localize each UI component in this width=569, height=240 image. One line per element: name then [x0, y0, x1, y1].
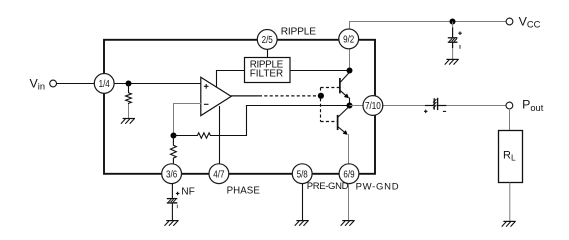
wire coupling cap to Pout terminal: [446, 105, 506, 107]
node input junction: [126, 81, 132, 87]
wire ripple filter to Q1 collector node: [290, 70, 350, 72]
wire NF cap to ground: [171, 203, 173, 220]
wire Pout to RL: [509, 109, 511, 131]
pin 6/9: [339, 164, 359, 184]
wire ripple filter to op-amp top: [217, 71, 245, 88]
wire dashed to Q1 base: [321, 87, 340, 89]
wire Vcc cap lower stub: [452, 42, 454, 48]
wire pin 5/8 to ground: [302, 184, 304, 220]
resistor RL load: [499, 131, 523, 183]
wire op-amp output: [231, 95, 259, 97]
wire pin 9/2 down to collector node: [349, 48, 351, 71]
pin 1/4: [94, 74, 114, 94]
node collector junction: [347, 68, 353, 74]
ground below RL: [502, 221, 516, 226]
pin 4/7: [209, 164, 229, 184]
node output junction: [347, 103, 353, 109]
transistor Q2 lower output: [338, 106, 350, 135]
svg-text:7/10: 7/10: [365, 101, 381, 112]
wire dashed to Q2 base: [321, 121, 338, 123]
ripple filter block: [245, 58, 291, 83]
svg-text:PHASE: PHASE: [227, 186, 261, 197]
svg-text:5/8: 5/8: [297, 169, 308, 180]
svg-text:RIPPLE: RIPPLE: [281, 27, 317, 38]
wire pin 4/7 to op-amp phase input: [219, 106, 221, 165]
IC outline U1: [104, 40, 375, 174]
wire input resistor to ground: [128, 104, 130, 118]
terminal Vin: [50, 80, 57, 87]
svg-text:9/2: 9/2: [343, 35, 354, 46]
svg-text:1/4: 1/4: [99, 79, 110, 90]
svg-text:6/9: 6/9: [343, 169, 354, 180]
wire Vcc cap upper stub: [452, 22, 454, 28]
wire Q2 emitter to pin 6/9: [348, 134, 350, 165]
wire Vcc rail from pin 9/2 up and right to Vcc terminal: [350, 22, 507, 30]
wire Vin to pin 1/4: [56, 83, 94, 85]
ground below NF cap: [165, 221, 179, 226]
pin 7/10: [363, 96, 383, 116]
pin 5/8: [292, 164, 312, 184]
capacitor C3 NF: [167, 192, 180, 209]
capacitor C2 output coupling: [424, 98, 446, 113]
svg-text:2/5: 2/5: [262, 35, 273, 46]
svg-text:3/6: 3/6: [166, 169, 177, 180]
node base junction: [318, 93, 324, 99]
svg-text:FILTER: FILTER: [250, 69, 284, 80]
ground below Vcc cap: [445, 59, 459, 64]
wire feedback to output node: [247, 106, 350, 136]
svg-text:PW-GND: PW-GND: [356, 181, 399, 192]
pin 3/6: [162, 164, 182, 184]
wire pin 6/9 to ground: [348, 184, 350, 220]
wire op-amp minus input: [174, 104, 202, 136]
ground below pin 5/8: [295, 221, 309, 226]
op-amp A1: [201, 77, 231, 115]
node Vcc junction: [450, 19, 456, 25]
wire pin 1/4 to op-amp plus input: [114, 83, 201, 85]
terminal Vcc: [506, 18, 513, 25]
resistor R1 input bias: [126, 84, 132, 105]
ground below pin 6/9: [341, 221, 355, 226]
terminal Pout: [506, 102, 513, 109]
resistor R3 NF arm: [170, 136, 176, 165]
svg-text:NF: NF: [181, 187, 195, 198]
wire pin 2/5 to ripple filter block: [267, 48, 269, 57]
svg-text:4/7: 4/7: [213, 169, 224, 180]
wire dashed op-amp output to base node: [259, 95, 318, 97]
resistor R2 feedback: [174, 133, 248, 138]
pin 9/2: [339, 29, 359, 49]
capacitor C1 Vcc ripple filter cap: [448, 32, 462, 49]
wire pin 3/6 to NF cap: [171, 184, 173, 199]
transistor Q1 upper output: [340, 72, 350, 105]
svg-text:PRE-GND: PRE-GND: [307, 181, 349, 192]
ground below input resistor: [121, 119, 135, 124]
node feedback junction: [171, 133, 177, 139]
wire RL to ground: [509, 183, 511, 221]
wire dashed base bus vertical: [320, 88, 322, 122]
pin 2/5: [257, 30, 277, 50]
wire output node to coupling cap: [350, 105, 426, 107]
